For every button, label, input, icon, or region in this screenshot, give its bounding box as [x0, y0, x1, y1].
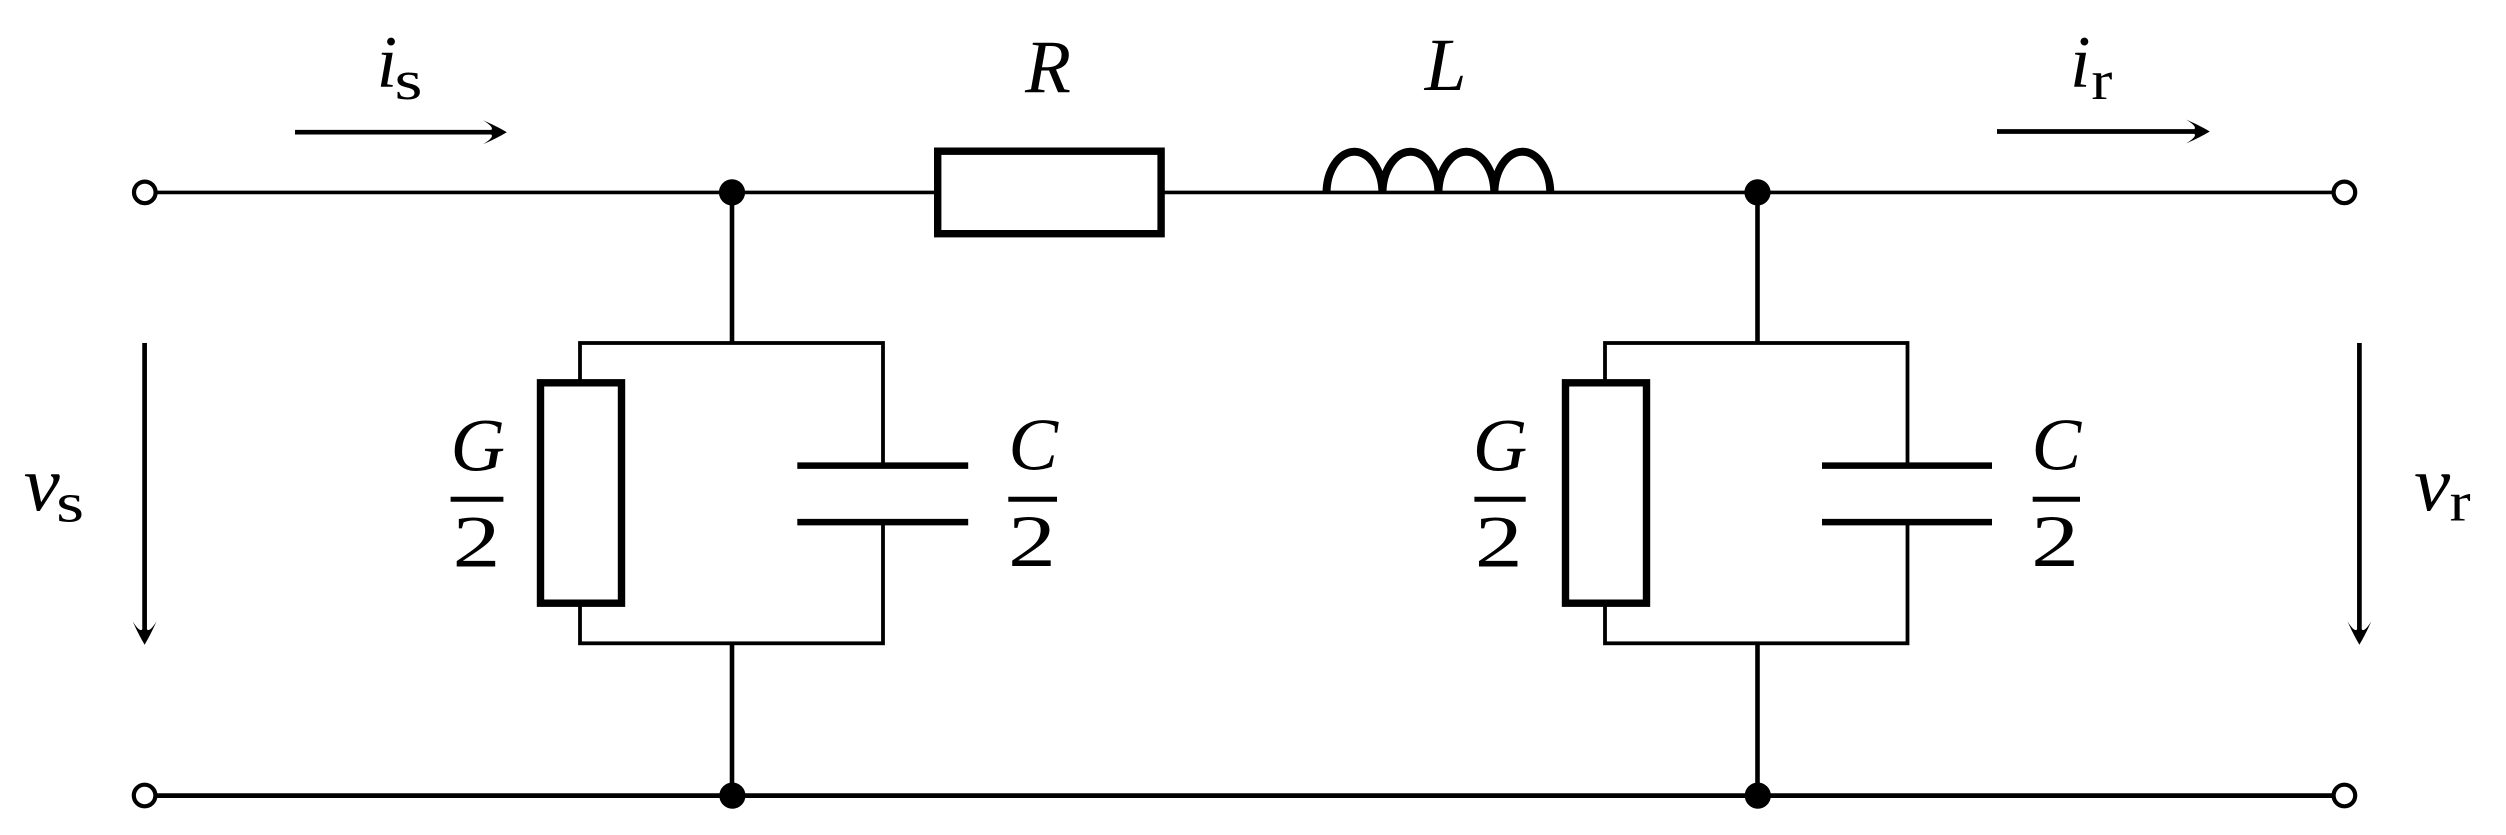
wire: right shunt lower stub — [1755, 642, 1760, 796]
voltage arrow v_r — [2347, 343, 2371, 645]
svg-text:C: C — [2032, 405, 2083, 487]
terminal: top-right port — [2334, 182, 2356, 204]
wire: left shunt upper stub — [730, 192, 735, 344]
voltage arrow v_s — [133, 343, 157, 645]
label C/2 fraction (left) — [1008, 405, 1059, 584]
svg-text:L: L — [1424, 24, 1467, 107]
svg-text:C: C — [1008, 405, 1059, 487]
label G/2 fraction (right) — [1473, 405, 1528, 584]
wire: right shunt upper stub — [1755, 192, 1760, 344]
terminal: bottom-left port — [134, 785, 156, 807]
wire: left shunt parallel frame — [580, 343, 883, 643]
svg-text:G: G — [1473, 405, 1528, 488]
svg-text:v: v — [2414, 440, 2450, 527]
svg-text:2: 2 — [453, 502, 501, 584]
svg-text:G: G — [451, 405, 506, 488]
label C/2 fraction (right) — [2031, 405, 2082, 584]
node: junction dot bottom-right — [1745, 783, 1771, 809]
svg-text:s: s — [395, 50, 423, 112]
capacitor C/2 (right) — [1822, 466, 1992, 522]
resistor G/2 (right) — [1566, 383, 1647, 603]
inductor L — [1327, 152, 1551, 194]
label i_r — [2070, 22, 2113, 112]
svg-text:v: v — [24, 440, 60, 527]
current arrow i_r — [1997, 120, 2210, 144]
label v_r — [2414, 440, 2471, 534]
wire: top rail — [157, 191, 2332, 195]
wire: left shunt lower stub — [730, 642, 735, 796]
label L — [1424, 24, 1467, 107]
svg-text:r: r — [2091, 50, 2112, 112]
svg-text:2: 2 — [1008, 501, 1056, 583]
svg-text:2: 2 — [2031, 501, 2079, 583]
label R — [1024, 26, 1071, 109]
label i_s — [377, 22, 423, 112]
label G/2 fraction (left) — [451, 405, 506, 584]
svg-text:2: 2 — [1475, 502, 1523, 584]
current arrow i_s — [295, 120, 507, 144]
node: junction dot bottom-left — [719, 783, 745, 809]
wire: right shunt parallel frame — [1605, 343, 1908, 643]
terminal: top-left port — [134, 182, 156, 204]
resistor R — [938, 151, 1161, 234]
node: junction dot top-right — [1744, 179, 1770, 205]
terminal: bottom-right port — [2334, 785, 2356, 807]
node: junction dot top-left — [719, 179, 745, 205]
capacitor C/2 (left) — [797, 466, 968, 522]
wire: bottom rail — [157, 793, 2332, 798]
resistor G/2 (left) — [541, 383, 622, 603]
svg-text:R: R — [1024, 26, 1071, 109]
svg-text:i: i — [2070, 22, 2091, 104]
label v_s — [24, 440, 84, 535]
svg-text:r: r — [2450, 472, 2471, 534]
svg-text:s: s — [56, 473, 84, 535]
